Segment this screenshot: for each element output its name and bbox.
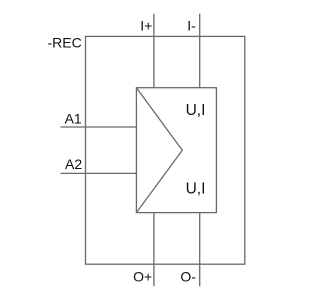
svg-text:O+: O+ bbox=[133, 268, 152, 284]
converter symbol triangle bbox=[136, 88, 182, 213]
svg-text:I+: I+ bbox=[140, 17, 152, 33]
wire input I+ vertical bbox=[153, 14, 155, 88]
outer device boundary rectangle bbox=[86, 36, 245, 264]
wire output O- vertical bbox=[199, 213, 201, 287]
wire input I- vertical bbox=[199, 14, 201, 88]
svg-text:-REC: -REC bbox=[48, 34, 82, 50]
svg-text:A2: A2 bbox=[65, 156, 82, 172]
svg-text:U,I: U,I bbox=[186, 102, 206, 119]
wire input A2 horizontal bbox=[61, 172, 137, 174]
wire output O+ vertical bbox=[153, 213, 155, 287]
converter block U1 body bbox=[136, 88, 216, 213]
wire input A1 horizontal bbox=[61, 126, 137, 128]
svg-text:O-: O- bbox=[180, 268, 196, 284]
svg-text:I-: I- bbox=[187, 17, 196, 33]
svg-text:A1: A1 bbox=[65, 111, 82, 127]
svg-text:U,I: U,I bbox=[186, 180, 206, 197]
